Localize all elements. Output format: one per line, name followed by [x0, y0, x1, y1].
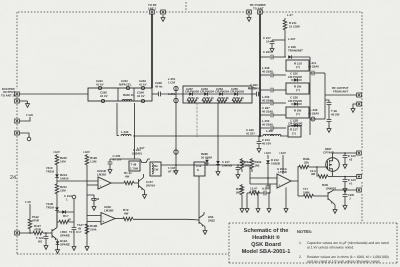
resistor R13A: [250, 191, 260, 195]
relay box K201: [150, 162, 161, 176]
diode D202: [291, 78, 302, 82]
wire right column x325: [324, 73, 326, 119]
svg-text:CR-PH205: CR-PH205: [288, 99, 302, 103]
ground at J6: [26, 101, 30, 107]
wire J6 stub: [19, 100, 27, 102]
label R12B2: [255, 160, 262, 167]
feedback resistor R12C: [57, 220, 74, 224]
svg-text:(M): (M): [245, 163, 249, 167]
wire FL2 exit right: [252, 93, 256, 95]
svg-text:4W: 4W: [124, 211, 129, 215]
trimmer circle 1: [174, 86, 178, 90]
coil L210: [263, 134, 281, 136]
capacitor C205: [108, 159, 113, 173]
svg-text:Capacitor values are in µF (mi: Capacitor values are in µF (microfarads)…: [307, 241, 389, 245]
svg-text:470R: 470R: [34, 227, 42, 231]
resistor R232: [85, 154, 89, 244]
label T411 TRIM: [46, 202, 54, 209]
ground x176: [174, 165, 178, 174]
label Q202: [146, 180, 156, 187]
wire FL2 drop: [217, 103, 219, 161]
svg-text:1.70M: 1.70M: [130, 166, 139, 170]
svg-text:TRANSMIT: TRANSMIT: [288, 48, 303, 52]
diode D230: [55, 174, 59, 184]
ground at J3: [247, 15, 251, 21]
capacitor C21C: [266, 178, 271, 188]
resistor R254: [232, 99, 242, 103]
svg-text:QSK Board: QSK Board: [251, 241, 281, 248]
bus branch y57: [260, 56, 270, 58]
connector J7: [15, 119, 20, 123]
wire Q204 emitter gnd: [203, 226, 207, 235]
capacitor C12V2: [343, 152, 348, 168]
svg-text:41 kV: 41 kV: [100, 94, 108, 98]
svg-text:TR1M: TR1M: [46, 169, 54, 173]
label R280: [201, 152, 212, 159]
svg-text:10: 10: [266, 39, 270, 43]
svg-text:+12V: +12V: [53, 150, 60, 154]
wire x74 column: [72, 195, 76, 227]
key box C12: [194, 162, 205, 176]
junction bus end: [259, 135, 261, 137]
feedthrough cap circle 5: [141, 99, 144, 102]
inductor circle L208: [311, 117, 315, 121]
svg-text:Heathkit ®: Heathkit ®: [252, 234, 281, 241]
wire R123 to Q203: [43, 232, 52, 234]
ground R42B: [240, 206, 244, 212]
connector J8: [15, 131, 20, 135]
connector J3: [247, 10, 252, 14]
label R12A: [245, 160, 252, 167]
svg-text:(M): (M): [255, 163, 259, 167]
feedthrough cap circle 1: [98, 86, 101, 89]
wire Q204 column: [198, 176, 200, 216]
svg-text:41 kV: 41 kV: [139, 82, 147, 86]
wire U201B input 2: [87, 184, 98, 186]
wire key column from FL2: [196, 103, 198, 137]
resistor P122: [28, 204, 32, 233]
wire C260 to bus: [259, 93, 260, 95]
diode D12A: [56, 239, 60, 253]
diode D252: [204, 92, 207, 96]
wire J8 stub: [19, 133, 29, 137]
wire branch to C217: [272, 39, 285, 41]
label C12V2: [348, 154, 356, 161]
indicator circle at J8: [27, 137, 31, 141]
wire Q202 emitter gnd: [143, 189, 147, 198]
connector J9: [357, 93, 362, 97]
svg-text:+: +: [103, 220, 105, 224]
wire Q202 collector: [143, 174, 145, 178]
coil L240 on box bottom: [122, 99, 132, 101]
capacitor C260: [257, 92, 259, 97]
label R13A: [250, 187, 258, 194]
diode D204: [291, 124, 302, 128]
label C21A: [64, 194, 73, 201]
diode D251: [189, 92, 192, 96]
border top dashed: [18, 11, 362, 13]
diode D203: [291, 102, 302, 106]
capacitor C219: [236, 164, 241, 178]
svg-text:Model SBA-2001-1: Model SBA-2001-1: [242, 248, 291, 255]
wire x283 down: [282, 155, 284, 174]
label R227: [123, 208, 129, 215]
svg-text:L735B: L735B: [278, 170, 287, 174]
notes box dashed border: [229, 223, 397, 263]
wire FL2 mid line: [183, 93, 252, 95]
svg-text:1W: 1W: [154, 167, 159, 171]
svg-text:L 2?: L 2?: [287, 13, 293, 17]
resistor box R217: [288, 126, 301, 137]
ground x269: [267, 192, 271, 212]
label D212: [271, 158, 280, 165]
svg-text:-: -: [279, 176, 280, 180]
label D12A: [60, 239, 70, 246]
svg-text:L 24?: L 24?: [137, 146, 145, 150]
resistor R233: [124, 181, 134, 185]
svg-text:SPARE: SPARE: [60, 242, 70, 246]
capacitor C246: [159, 92, 161, 97]
label C205: [113, 154, 122, 161]
svg-text:100k: 100k: [90, 227, 97, 231]
svg-text:1N52B: 1N52B: [271, 161, 280, 165]
svg-text:AT 1P1: AT 1P1: [168, 169, 178, 173]
resistor R12A: [240, 158, 244, 172]
svg-text:CR-PH208: CR-PH208: [230, 90, 244, 94]
wire Q208 emitter gnd: [333, 203, 337, 214]
connector J10: [357, 102, 362, 106]
capacitor C12V3: [343, 176, 348, 193]
ground at J2: [161, 15, 165, 21]
wire branch y90 b: [274, 89, 287, 91]
label L211: [308, 61, 319, 68]
resistor R42B: [240, 184, 244, 206]
svg-text:at 1 kV unless otherwise noted: at 1 kV unless otherwise noted.: [307, 245, 354, 249]
svg-text:40 25AV: 40 25AV: [262, 69, 273, 73]
note 1 text: [307, 241, 389, 249]
svg-text:1 GN: 1 GN: [26, 113, 33, 117]
wire trimmer column down: [175, 86, 177, 165]
transistor Q208: [328, 190, 334, 204]
svg-text:L 207: L 207: [288, 37, 296, 41]
resistor R252: [202, 99, 212, 103]
svg-text:40 2W: 40 2W: [331, 112, 340, 116]
wire line y165 to opamp drop: [250, 165, 277, 184]
resistor R435: [298, 165, 317, 169]
svg-text:L 251: L 251: [168, 92, 176, 96]
wire splitter x298: [297, 166, 299, 196]
wire left bottom connector line: [19, 232, 33, 234]
wire U203 out: [291, 180, 298, 182]
svg-text:-: -: [100, 179, 101, 183]
wire source to connector: [333, 171, 358, 176]
wire TR column from FL1: [116, 103, 118, 136]
svg-text:(M): (M): [236, 190, 240, 194]
wire drain to connector: [333, 153, 358, 158]
wire box1 to C246: [152, 93, 158, 95]
wire bias column from FL1: [134, 103, 136, 159]
label R42B: [236, 187, 243, 194]
transistor Q202: [139, 178, 144, 191]
mosfet Q207: [317, 158, 339, 172]
svg-text:Resistor values are in ohms (k: Resistor values are in ohms (k = 1000, M…: [307, 255, 389, 259]
wire branch y128 b: [274, 127, 287, 129]
capacitor C237: [271, 101, 273, 106]
svg-text:L 244: L 244: [121, 130, 129, 134]
label C226: [288, 72, 302, 79]
svg-text:L 2W: L 2W: [266, 129, 273, 133]
svg-text:1N414: 1N414: [60, 176, 69, 180]
label T410 TRIM: [46, 166, 54, 173]
label C12V4: [348, 193, 354, 200]
capacitor C234: [271, 126, 273, 131]
op-amp U202A: [101, 213, 115, 225]
svg-text:41 kV: 41 kV: [96, 82, 104, 86]
border bottom-left dashed: [17, 253, 229, 255]
wire RF out y95: [325, 94, 357, 96]
diode box column box2: [286, 83, 309, 94]
label R233: [124, 171, 132, 178]
connector J6: [15, 99, 20, 103]
label Q208: [322, 183, 337, 190]
resistor R227: [123, 217, 133, 221]
svg-text:W: W: [68, 217, 71, 221]
svg-text:41 25?: 41 25?: [246, 131, 255, 135]
svg-text:CR-PH208: CR-PH208: [185, 90, 199, 94]
svg-text:+12V: +12V: [264, 151, 271, 155]
capacitor C213: [257, 135, 262, 146]
svg-text:SPARE: SPARE: [60, 233, 70, 237]
svg-text:+12V: +12V: [279, 151, 286, 155]
resistor R253: [217, 99, 227, 103]
connector J2: [161, 10, 166, 14]
label C21B: [91, 197, 99, 204]
ground J10: [351, 104, 357, 112]
diode D254: [234, 92, 237, 96]
svg-text:2N5491: 2N5491: [132, 151, 143, 155]
resistor R231: [55, 184, 59, 207]
svg-text:CR-PH204: CR-PH204: [215, 90, 229, 94]
wire link y119: [310, 118, 325, 120]
label D217: [222, 160, 233, 167]
feedthrough cap circle 3: [141, 86, 144, 89]
svg-text:TR1M: TR1M: [46, 205, 54, 209]
svg-text:40 4n: 40 4n: [155, 84, 163, 88]
label C228: [288, 96, 302, 103]
filter box FL1: [88, 88, 152, 101]
label R218: [294, 62, 302, 70]
label L208: [308, 108, 319, 115]
filter box FL1 divider 2: [133, 88, 135, 101]
svg-text:NiPACEL: NiPACEL: [119, 82, 132, 86]
label C240: [246, 128, 255, 135]
label R12C: [63, 214, 71, 221]
svg-text:C 231: C 231: [263, 50, 271, 54]
feedthrough cap circle 2: [126, 86, 129, 89]
capacitor C236: [271, 88, 273, 93]
wire bias row y193: [247, 184, 270, 193]
svg-text:40 25AV: 40 25AV: [262, 122, 273, 126]
label L209b: [262, 95, 273, 102]
wire tap to U201B: [57, 180, 98, 182]
wire U201B out: [111, 182, 124, 184]
resistor R436: [298, 194, 328, 198]
wire J5 to filter: [19, 93, 88, 95]
svg-text:2N?6A: 2N?6A: [146, 183, 156, 187]
svg-text:24: 24: [10, 175, 16, 181]
svg-text:40 16V: 40 16V: [262, 141, 271, 145]
svg-text:41 kV: 41 kV: [137, 94, 145, 98]
filter box FL2: [183, 86, 252, 103]
label C12V3: [348, 178, 356, 185]
label Q201: [132, 148, 143, 155]
svg-text:T1?: T1?: [69, 230, 74, 234]
label U201B: [97, 169, 106, 176]
svg-text:C1?: C1?: [76, 230, 82, 234]
resistor chain label T12: [77, 223, 84, 230]
svg-text:R240 1k: R240 1k: [123, 93, 134, 97]
wire long to Q204: [133, 218, 199, 221]
svg-text:+: +: [279, 183, 281, 187]
label C74: [69, 230, 82, 234]
border right dashed: [361, 12, 363, 222]
diode box column box1: [286, 60, 309, 71]
connector J12: [357, 151, 362, 155]
label R230: [60, 156, 67, 163]
svg-text:CR-PH205: CR-PH205: [288, 75, 302, 79]
coil L244: [121, 134, 131, 136]
svg-text:10M: 10M: [60, 188, 66, 192]
wire top link diode to column: [292, 56, 310, 58]
resistor R434 gate-source: [317, 167, 333, 178]
label RF OUTPUT: [332, 86, 349, 93]
connector J1: [150, 10, 155, 14]
junction J11 rail: [29, 232, 31, 234]
svg-text:40 25AV: 40 25AV: [308, 111, 319, 115]
label L-CM: [168, 166, 178, 173]
diode D253: [219, 92, 222, 96]
ground x258: [256, 192, 260, 212]
svg-text:CR-PH204: CR-PH204: [200, 90, 214, 94]
svg-text:20k: 20k: [304, 160, 309, 164]
transistor Q203: [52, 228, 57, 241]
svg-text:4W: 4W: [125, 174, 130, 178]
diode D201: [288, 55, 291, 59]
svg-text:40 25AV: 40 25AV: [262, 98, 273, 102]
label R436: [303, 187, 310, 194]
svg-text:+12V: +12V: [83, 150, 90, 154]
capacitor C21B: [87, 195, 96, 210]
wire link y73: [310, 71, 325, 76]
connector J11: [15, 231, 20, 235]
svg-text:1N4149: 1N4149: [222, 163, 233, 167]
label U203: [277, 167, 288, 174]
bus branch y128: [260, 127, 270, 129]
diode D216: [205, 158, 209, 166]
diode D231: [55, 207, 59, 227]
transistor Q201 pass: [140, 159, 148, 163]
label Q207: [323, 147, 334, 154]
trimmer circle 2: [174, 98, 178, 102]
svg-text:1 2V: 1 2V: [25, 200, 31, 204]
svg-text:1.: 1.: [299, 241, 302, 245]
diode box column box3: [286, 107, 309, 118]
wire branch y103 b: [274, 102, 287, 104]
label P122: [32, 215, 40, 222]
svg-text:NOTES:: NOTES:: [297, 229, 312, 234]
capacitor C12V: [44, 232, 49, 249]
svg-text:10M: 10M: [60, 159, 66, 163]
zener D212: [266, 155, 270, 178]
label Q203: [60, 230, 70, 237]
svg-text:FROM ANT: FROM ANT: [333, 89, 348, 93]
label C12V: [36, 236, 44, 243]
svg-text:40 16V: 40 16V: [113, 157, 122, 161]
bus branch y90: [260, 89, 270, 91]
capacitor column x329: [325, 100, 331, 132]
svg-text:1k 1/2W: 1k 1/2W: [289, 24, 300, 28]
capacitor C233: [271, 113, 273, 118]
label C248 TRANSMIT: [288, 45, 303, 52]
resistor R123: [33, 231, 43, 235]
wire to Q202: [134, 182, 139, 184]
label D230: [60, 173, 69, 180]
bus branch y103: [260, 102, 270, 104]
border left dashed: [16, 12, 18, 254]
junction D212 input: [267, 177, 269, 179]
capacitor C74: [72, 228, 77, 251]
svg-text:(?): (?): [296, 65, 300, 69]
label R231: [60, 185, 67, 192]
label R234: [90, 224, 97, 231]
label C229: [288, 119, 302, 126]
connector J13: [357, 175, 362, 179]
wire branch y57 b: [274, 56, 287, 58]
svg-text:1 CM: 1 CM: [168, 80, 175, 84]
svg-text:1.5M: 1.5M: [90, 159, 97, 163]
label R220: [294, 109, 301, 117]
fold mark top: [185, 2, 187, 11]
label T28: [331, 109, 340, 116]
wire branch y115 b: [274, 114, 287, 116]
rfc circle x176: [174, 150, 178, 154]
svg-text:and are rated at 1/2 watt unle: and are rated at 1/2 watt unless otherwi…: [307, 259, 380, 263]
diode D217: [216, 161, 220, 175]
svg-text:-: -: [103, 214, 104, 218]
wire right column x310: [309, 57, 311, 135]
feedback diode D12B: [57, 210, 74, 214]
bus branch y115: [260, 114, 270, 116]
svg-text:4M: 4M: [311, 172, 316, 176]
svg-text:#1: #1: [349, 181, 353, 185]
label R232: [90, 156, 97, 163]
wire J7 stub: [19, 117, 30, 121]
ground x247: [245, 193, 249, 212]
ground C213: [257, 146, 261, 152]
op-amp U201B: [98, 177, 111, 189]
wire Q208 collector line: [334, 189, 358, 191]
svg-text:40 25AV: 40 25AV: [308, 64, 319, 68]
svg-text:LM358: LM358: [97, 172, 106, 176]
svg-text:Schematic of the: Schematic of the: [244, 227, 289, 234]
svg-text:2.: 2.: [299, 255, 302, 259]
capacitor C12V4: [343, 189, 348, 209]
trimmer box R246: [129, 161, 140, 171]
transistor Q204: [199, 212, 204, 227]
wire branch y75 b: [274, 74, 287, 76]
wire Q203 collector up: [56, 211, 58, 228]
wire U202A out: [115, 218, 123, 220]
